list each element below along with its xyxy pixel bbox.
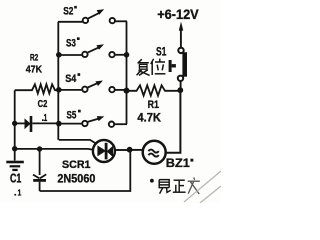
wire left rail vertical xyxy=(14,90,16,160)
node: S3 left junction xyxy=(56,52,62,58)
正 xyxy=(174,179,185,181)
svg-text:C2: C2 xyxy=(38,98,48,110)
svg-text:C1: C1 xyxy=(10,172,21,186)
svg-text:+6-12V: +6-12V xyxy=(157,7,199,22)
label S5* xyxy=(67,110,81,122)
svg-text:SCR1: SCR1 xyxy=(62,159,91,171)
node: R1/S1 junction xyxy=(177,87,183,93)
svg-text:S1: S1 xyxy=(156,45,167,59)
svg-text:S2: S2 xyxy=(63,5,73,17)
svg-text:2N5060: 2N5060 xyxy=(57,171,95,185)
label *见正文 (drawn strokes) xyxy=(150,178,200,195)
asterisk dot xyxy=(150,179,154,183)
svg-text:R2: R2 xyxy=(30,52,38,63)
node: S5 left junction xyxy=(56,121,62,127)
switch S2 xyxy=(58,9,127,23)
svg-text:S3: S3 xyxy=(66,38,76,50)
wire to buzzer xyxy=(130,149,143,151)
capacitor C2 (diode-style symbol) on S5 row xyxy=(15,116,59,132)
wire SCR gate from left bus xyxy=(59,140,97,144)
label S4* xyxy=(65,73,80,85)
wire right rail xyxy=(167,90,181,153)
node: C1 top junction xyxy=(37,146,42,151)
node: C2 left junction xyxy=(12,121,17,126)
svg-text:47K: 47K xyxy=(26,64,43,75)
svg-text:BZ1: BZ1 xyxy=(166,156,190,170)
svg-text:1: 1 xyxy=(44,112,48,124)
wire left bus vertical xyxy=(57,22,59,140)
svg-text:S5: S5 xyxy=(67,110,77,122)
label BZ1* xyxy=(166,156,193,170)
见 xyxy=(159,180,169,188)
node: SCR/BZ junction xyxy=(127,147,133,153)
node: S3 right junction xyxy=(124,52,130,58)
label S3* xyxy=(66,37,80,49)
ground xyxy=(6,161,24,171)
thyristor SCR1 xyxy=(93,140,127,162)
switch S3 xyxy=(59,44,127,57)
switch S5 xyxy=(59,116,127,127)
svg-text:4.7K: 4.7K xyxy=(137,113,161,125)
resistor R2 xyxy=(15,84,59,93)
buzzer BZ1 xyxy=(143,141,166,164)
switch S4 xyxy=(59,81,127,93)
pushbutton S1 复位 xyxy=(169,48,187,90)
wire gate row: from dot to SCR anode-left xyxy=(15,148,94,151)
power +6-12V arrow xyxy=(179,22,184,48)
node: S4/R1 right junction xyxy=(124,88,130,94)
label 复位 (drawn strokes) xyxy=(137,59,166,76)
label S2* xyxy=(63,5,77,17)
wire right bus vertical xyxy=(126,21,128,124)
svg-text:S4: S4 xyxy=(65,73,77,85)
capacitor C1 xyxy=(33,149,46,191)
svg-text:R1: R1 xyxy=(148,99,159,111)
scan artifact diagonal lines xyxy=(184,171,221,202)
文 (faint) xyxy=(188,178,200,195)
wire bottom rail xyxy=(40,149,131,191)
svg-text:1: 1 xyxy=(18,188,22,198)
resistor R1 xyxy=(127,85,181,95)
node: S4 left junction xyxy=(56,87,62,93)
node: ground junction xyxy=(12,146,17,151)
